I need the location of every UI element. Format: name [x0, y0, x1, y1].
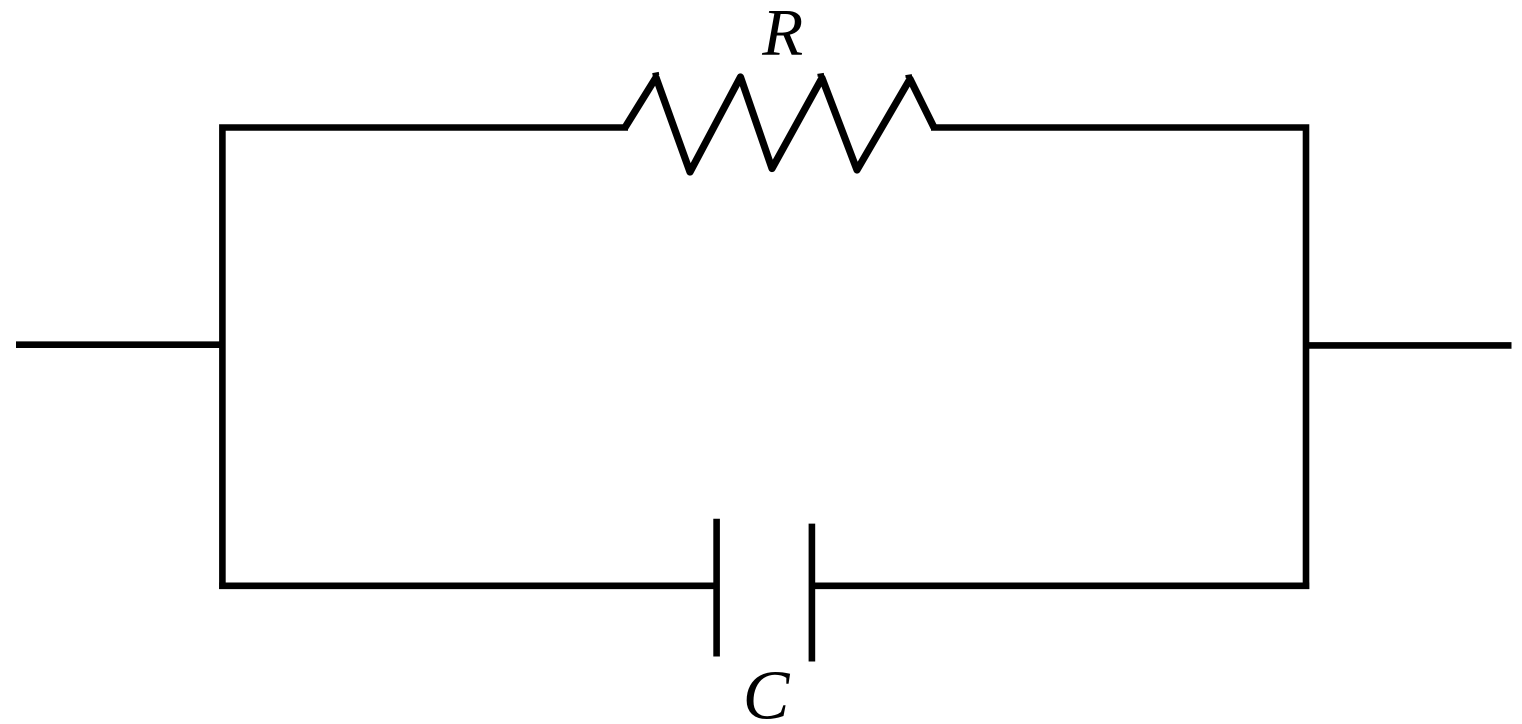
left terminal lead: [16, 341, 226, 348]
right terminal lead: [1303, 342, 1512, 349]
svg-text:C: C: [743, 657, 791, 724]
wire: capacitor to bottom-right: [812, 582, 1309, 589]
wire: bottom-left wire to capacitor: [219, 582, 716, 589]
capacitor C right plate: [809, 524, 816, 662]
wire: left bus + top-left wire: [222, 128, 628, 590]
resistor peak tick 4: [906, 76, 913, 77]
wire: top-right wire + right bus: [931, 128, 1306, 590]
resistor R zigzag: [625, 77, 934, 172]
svg-text:R: R: [761, 0, 803, 69]
resistor peak tick 1: [653, 73, 660, 74]
capacitor C left plate: [713, 519, 720, 657]
resistor peak tick 3: [818, 74, 825, 75]
